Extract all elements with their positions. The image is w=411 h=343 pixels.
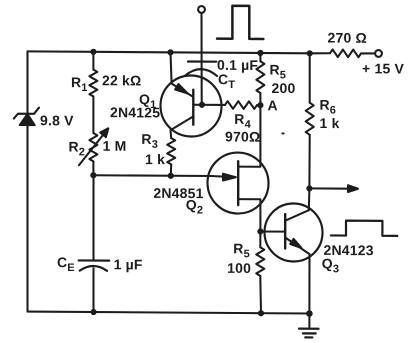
wire trigger line [200, 13, 202, 105]
wire top rail [28, 51, 310, 53]
resistor R2 [89, 133, 97, 161]
resistor R1 [89, 70, 97, 97]
wire output node to Q3 collector [308, 188, 311, 210]
svg-text:2N4125: 2N4125 [110, 104, 160, 120]
wire R5 stub [259, 53, 261, 61]
svg-text:1 k: 1 k [145, 151, 165, 167]
node R5 bottom [258, 310, 264, 316]
resistor R3 [167, 138, 175, 164]
transistor Q3 [265, 203, 323, 261]
wire Q3 emitter down [308, 254, 310, 313]
input pulse waveform [217, 6, 263, 39]
node output [306, 185, 312, 191]
transistor Q2 [208, 152, 269, 213]
node R5 top [257, 50, 263, 56]
wire R3 bottom [170, 164, 172, 175]
svg-text:1 k: 1 k [320, 115, 340, 131]
node CE bottom [91, 309, 97, 315]
svg-text:270 Ω: 270 Ω [328, 30, 367, 46]
resistor R6 [306, 103, 314, 135]
wire R5 to node A [259, 93, 261, 105]
wire Q3 base [260, 230, 285, 232]
resistor R4 [225, 101, 257, 109]
capacitor CE [79, 260, 110, 312]
svg-text:200: 200 [272, 80, 296, 96]
wire Q1 emitter stub [171, 52, 172, 83]
node R3 bottom [168, 173, 174, 179]
output square wave [331, 221, 397, 236]
wire R2 to middle [92, 161, 94, 175]
resistor 270 ohm [310, 49, 375, 57]
wire junction to R5 [259, 231, 261, 247]
capacitor CT [185, 61, 217, 76]
node Q1 emitter top [167, 49, 173, 55]
wire A to Q2 base2 [238, 105, 260, 167]
svg-text:970Ω: 970Ω [225, 128, 260, 144]
terminal trigger input [198, 6, 205, 13]
wire R6 to output node [308, 135, 310, 189]
wire Q1 collector to R3 [169, 130, 172, 138]
svg-text:1 µF: 1 µF [114, 256, 143, 272]
ink speck [281, 132, 284, 134]
node ground [306, 310, 313, 317]
R2 wiper arrow [79, 128, 108, 165]
resistor R5 200 [256, 61, 264, 93]
node R6 top [307, 50, 313, 56]
svg-text:9.8 V: 9.8 V [40, 112, 74, 128]
transistor Q1 [161, 75, 222, 136]
wire R1 stub [92, 52, 94, 70]
node Q2/Q3/R5 junction [257, 228, 263, 234]
node R2 bottom [90, 172, 96, 178]
svg-text:22 kΩ: 22 kΩ [102, 72, 141, 88]
svg-text:+ 15 V: + 15 V [362, 60, 405, 76]
wire bottom rail [28, 312, 310, 314]
wire R6 stub [309, 53, 311, 102]
svg-text:1 M: 1 M [103, 138, 127, 154]
node A [257, 102, 263, 108]
node top of R1 [90, 49, 96, 55]
resistor R5 100 [256, 247, 264, 276]
wire CE stub [92, 175, 94, 260]
wire R1-R2 [92, 96, 94, 133]
output arrow [309, 185, 358, 192]
wire middle rail [93, 174, 211, 177]
wire Q2 base1 down [238, 199, 260, 231]
wire R4 to A [257, 104, 260, 106]
ground [299, 313, 319, 337]
svg-text:A: A [268, 97, 278, 113]
svg-text:100: 100 [227, 260, 251, 276]
wire R5 bottom [259, 276, 262, 313]
node Q1 base junction [199, 102, 205, 108]
zener diode 9.8V [14, 107, 39, 125]
wire Q1 base [193, 104, 225, 106]
wire left rail [26, 51, 28, 311]
terminal +15V [375, 50, 382, 57]
